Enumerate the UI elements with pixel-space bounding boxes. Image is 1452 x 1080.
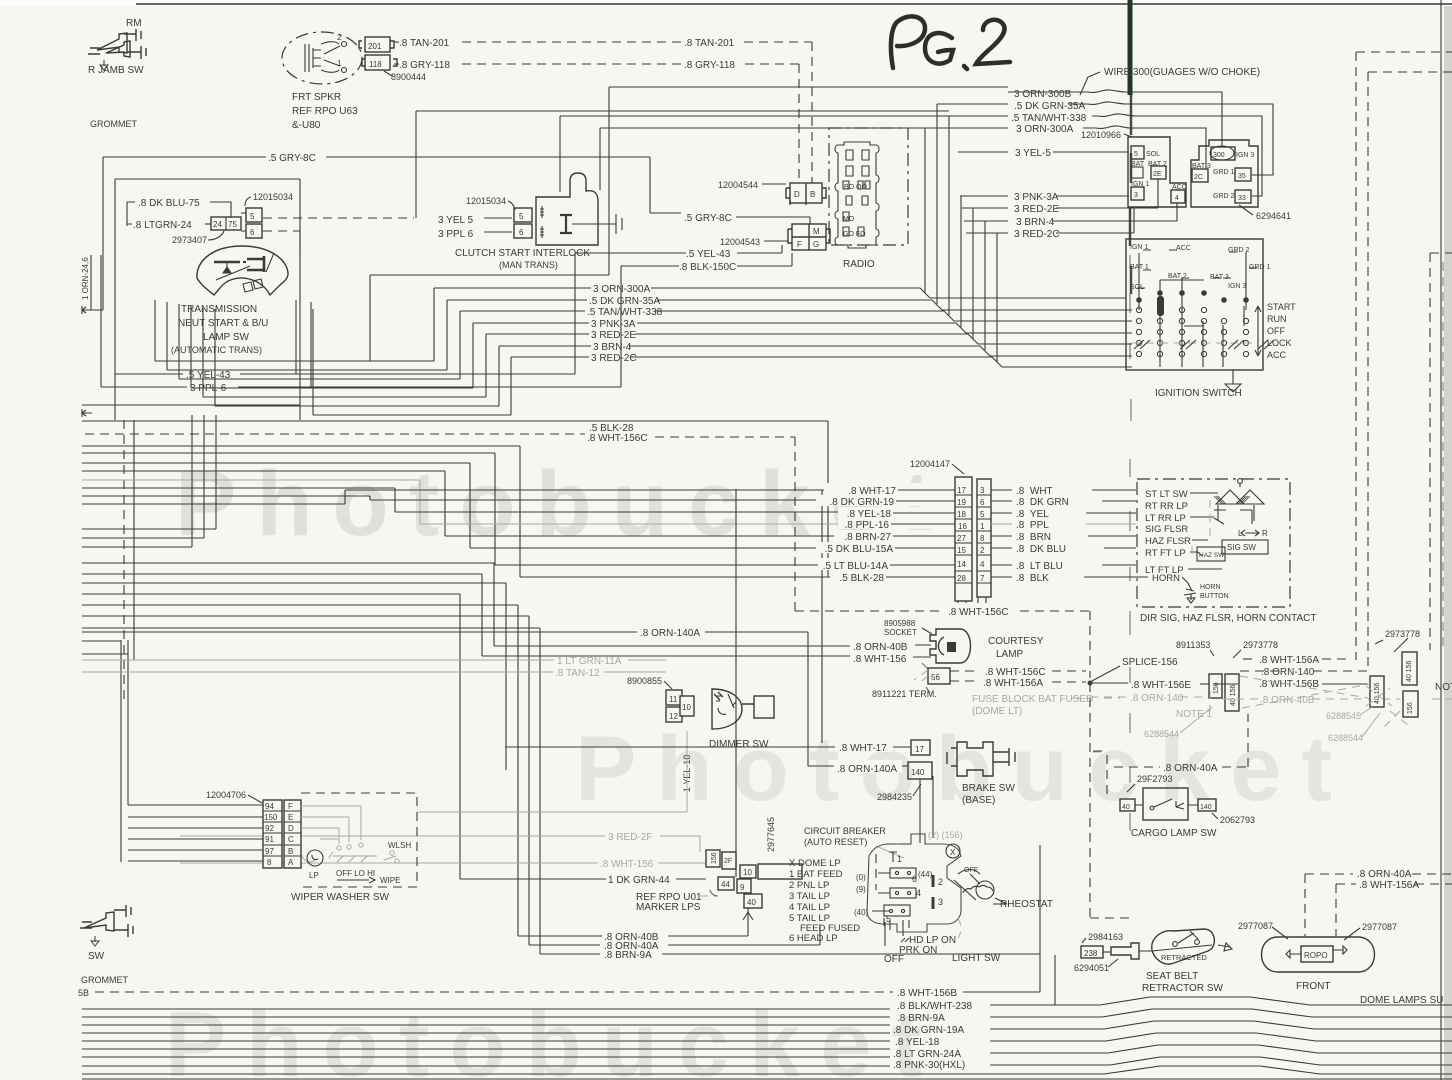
svg-text:2: 2 (938, 877, 943, 887)
svg-text:8: 8 (267, 858, 272, 867)
svg-text:SIG SW: SIG SW (1227, 543, 1256, 552)
right side long dashed verticals (1356, 52, 1452, 660)
retractor body (1152, 929, 1215, 964)
svg-text:140: 140 (911, 768, 925, 777)
svg-text:9: 9 (740, 883, 745, 892)
rows feeding right label fan (560, 116, 949, 192)
FRT SPKR component (282, 32, 362, 84)
svg-text:RADIO: RADIO (843, 259, 875, 270)
svg-text:40 156: 40 156 (1374, 682, 1381, 704)
svg-text:40: 40 (747, 898, 756, 907)
svg-text:.8 WHT-156C: .8 WHT-156C (985, 667, 1046, 678)
svg-text:F: F (288, 802, 293, 811)
svg-text:.8 GRY-118: .8 GRY-118 (684, 60, 735, 71)
lower-left staircase rows (82, 415, 216, 529)
svg-text:F: F (797, 240, 802, 249)
svg-text:.8 ORN-40A: .8 ORN-40A (1357, 869, 1412, 880)
svg-text:ACC: ACC (1176, 245, 1191, 252)
svg-text:NOT: NOT (1435, 682, 1452, 693)
door jamb switch (top) (88, 29, 146, 70)
wire .8 ORN-140A long row (82, 631, 637, 633)
svg-text:.8 BLK/WHT-238: .8 BLK/WHT-238 (897, 1001, 972, 1012)
svg-text:(40): (40) (854, 908, 869, 917)
svg-text:1 DK GRN-44: 1 DK GRN-44 (608, 875, 670, 886)
svg-text:3 RED-2F: 3 RED-2F (608, 832, 652, 843)
svg-text:44: 44 (721, 880, 730, 889)
ignition connector left 12010966 (1128, 137, 1186, 207)
svg-text:.8 BRN-9A: .8 BRN-9A (604, 950, 652, 961)
svg-text:.8 WHT-156: .8 WHT-156 (853, 654, 907, 665)
svg-text:PRK ON: PRK ON (899, 945, 937, 956)
bottom harness bundle left (82, 1009, 890, 1066)
svg-text:156: 156 (711, 852, 718, 864)
svg-text:.8 ORN-140: .8 ORN-140 (1130, 693, 1184, 704)
svg-text:.8 WHT-156A: .8 WHT-156A (1359, 880, 1419, 891)
svg-text:40 156: 40 156 (1406, 660, 1413, 682)
svg-text:8: 8 (980, 534, 985, 543)
156 terminal under lamp (928, 668, 950, 684)
svg-text:8900855: 8900855 (627, 676, 662, 686)
dashed enclosure (301, 793, 417, 887)
8 rows to connector 12004147 (82, 446, 868, 577)
svg-text:(BASE): (BASE) (962, 795, 995, 806)
svg-text:3 BRN-4: 3 BRN-4 (1016, 217, 1055, 228)
svg-text:.5 TAN/WHT-338: .5 TAN/WHT-338 (1011, 113, 1087, 124)
splice dashed vertical down (1090, 683, 1130, 918)
svg-text:12: 12 (669, 712, 678, 721)
svg-text:29F2793: 29F2793 (1137, 774, 1173, 784)
svg-text:3 ORN-300A: 3 ORN-300A (593, 284, 651, 295)
svg-text:12004543: 12004543 (720, 237, 760, 247)
svg-text:.5 GRY-8C: .5 GRY-8C (684, 213, 732, 224)
svg-text:3 PNK-3A: 3 PNK-3A (591, 319, 636, 330)
svg-text:.8 PNK-30(HXL): .8 PNK-30(HXL) (893, 1060, 965, 1071)
lock row dashed with wipers (1132, 342, 1254, 344)
internals (301, 806, 399, 863)
svg-text:.8 GRY-118: .8 GRY-118 (399, 60, 450, 71)
svg-text:238: 238 (1084, 949, 1098, 958)
svg-text:B: B (288, 847, 293, 856)
wire .5 GRY-8C top run (103, 156, 266, 158)
svg-text:OFF: OFF (964, 867, 978, 874)
svg-text:ACC: ACC (1267, 350, 1287, 360)
svg-text:2: 2 (980, 546, 985, 555)
rheostat (954, 870, 994, 901)
svg-text:12004706: 12004706 (206, 790, 246, 800)
svg-text:11: 11 (669, 695, 678, 704)
svg-text:2: 2 (337, 33, 342, 42)
svg-text:(9): (9) (856, 885, 866, 894)
svg-text:GROMMET: GROMMET (90, 119, 137, 129)
svg-text:BRAKE SW: BRAKE SW (962, 783, 1015, 794)
svg-text:2973778: 2973778 (1243, 640, 1278, 650)
svg-text:.5 DK BLU-15A: .5 DK BLU-15A (825, 544, 894, 555)
svg-text:150: 150 (264, 813, 278, 822)
wires at splice right going to far cluster (1243, 658, 1257, 660)
svg-text:4: 4 (980, 560, 985, 569)
svg-text:RUN: RUN (1267, 314, 1287, 324)
svg-text:3 YEL-5: 3 YEL-5 (1015, 148, 1051, 159)
svg-text:M: M (813, 227, 820, 236)
START RUN OFF LOCK ACC (1255, 306, 1261, 356)
svg-text:DOME LAMPS SU: DOME LAMPS SU (1360, 995, 1443, 1006)
cargo lamp switch (1093, 751, 1107, 799)
svg-text:NEUT START & B/U: NEUT START & B/U (178, 318, 268, 329)
svg-text:1 BAT FEED: 1 BAT FEED (789, 869, 843, 880)
svg-text:LP: LP (309, 871, 319, 880)
svg-text:3: 3 (980, 486, 985, 495)
svg-text:.8 DK BLU: .8 DK BLU (1016, 544, 1066, 555)
svg-text:2C: 2C (1194, 174, 1203, 181)
svg-text:LAMP SW: LAMP SW (203, 332, 249, 343)
svg-text:.8 DK GRN: .8 DK GRN (1016, 497, 1069, 508)
svg-text:2 PNL LP: 2 PNL LP (789, 880, 829, 891)
svg-text:FRONT: FRONT (1296, 981, 1330, 992)
brake switch (947, 742, 1015, 776)
svg-text:LIGHT SW: LIGHT SW (952, 953, 1001, 964)
svg-text:.8 BRN-9A: .8 BRN-9A (897, 1013, 945, 1024)
ORN-40B / 40A / BRN-9A labels (600, 935, 602, 937)
svg-text:.8 LT BLU: .8 LT BLU (1016, 561, 1063, 572)
svg-text:.8 ORN-140A: .8 ORN-140A (837, 764, 897, 775)
svg-text:18: 18 (957, 510, 966, 519)
svg-text:WIPER WASHER SW: WIPER WASHER SW (291, 892, 390, 903)
svg-text:6288544: 6288544 (1328, 733, 1363, 743)
svg-text:OFF: OFF (1267, 326, 1285, 336)
svg-text:A: A (288, 858, 294, 867)
svg-text:.8 ORN-140A: .8 ORN-140A (640, 628, 700, 639)
svg-text:DIR SIG, HAZ FLSR, HORN CONTAC: DIR SIG, HAZ FLSR, HORN CONTACT (1140, 613, 1317, 624)
svg-text:1: 1 (897, 854, 902, 864)
svg-text:92: 92 (265, 824, 274, 833)
svg-text:HORN: HORN (1152, 573, 1180, 584)
svg-text:.8 YEL: .8 YEL (1016, 509, 1049, 520)
svg-text:SOL: SOL (1146, 151, 1160, 158)
svg-text:8905988: 8905988 (884, 619, 916, 628)
svg-text:.8 PPL: .8 PPL (1016, 520, 1049, 531)
svg-text:&-U80: &-U80 (292, 120, 321, 131)
handwritten PG. 2 (891, 16, 1010, 69)
svg-text:.8 YEL-18: .8 YEL-18 (895, 1037, 940, 1048)
svg-text:6: 6 (519, 228, 524, 237)
svg-text:3 RED-2E: 3 RED-2E (591, 330, 636, 341)
svg-text:RETRACTED: RETRACTED (1161, 953, 1207, 962)
svg-text:GRD 2: GRD 2 (1213, 193, 1235, 200)
svg-text:2E: 2E (1153, 171, 1162, 178)
svg-text:12004544: 12004544 (718, 180, 758, 190)
svg-text:.8 WHT-156C: .8 WHT-156C (587, 433, 648, 444)
svg-text:2F: 2F (724, 858, 732, 865)
svg-text:.8 WHT-156B: .8 WHT-156B (897, 988, 957, 999)
svg-text:IGN 3: IGN 3 (1228, 283, 1246, 290)
svg-text:D: D (794, 190, 800, 199)
svg-text:201: 201 (368, 42, 382, 51)
svg-text:OFF: OFF (884, 954, 904, 965)
7 wires left of labels with Z-steps (651, 288, 1126, 298)
ignition switch contact dots (1136, 307, 1248, 356)
svg-text:(2) (156): (2) (156) (928, 830, 963, 840)
speaker connector 201/118 (359, 37, 397, 70)
svg-text:GRD 1: GRD 1 (1213, 169, 1235, 176)
left edge arrow terminals (82, 306, 103, 314)
svg-text:.8 LT GRN-24A: .8 LT GRN-24A (893, 1049, 961, 1060)
svg-text:WIPE: WIPE (380, 876, 400, 885)
svg-text:6294641: 6294641 (1256, 211, 1291, 221)
horn button (1184, 583, 1196, 595)
svg-text:E: E (288, 813, 293, 822)
svg-text:IGN 3: IGN 3 (1236, 152, 1254, 159)
svg-text:3: 3 (1134, 192, 1138, 199)
svg-text:D: D (288, 824, 294, 833)
svg-text:LT RR LP: LT RR LP (1145, 513, 1186, 524)
svg-text:5: 5 (980, 510, 985, 519)
svg-text:FRT SPKR: FRT SPKR (292, 92, 341, 103)
svg-text:SIG FLSR: SIG FLSR (1145, 524, 1188, 535)
svg-text:27: 27 (957, 534, 966, 543)
svg-text:7: 7 (980, 574, 985, 583)
svg-text:WLSH: WLSH (388, 841, 411, 850)
clutch switch body (536, 173, 598, 245)
svg-text:4: 4 (916, 888, 921, 898)
svg-text:.8 YEL-18: .8 YEL-18 (847, 509, 892, 520)
svg-text:.8 TAN-12: .8 TAN-12 (555, 668, 600, 679)
far right connector cluster (1370, 652, 1418, 717)
wire 3 PNK-3A (960, 195, 1008, 197)
svg-text:5: 5 (886, 914, 891, 924)
svg-text:3 RED-2C: 3 RED-2C (591, 353, 637, 364)
orn-140A connector (808, 765, 836, 767)
svg-text:156: 156 (1407, 702, 1414, 714)
page top border (136, 3, 1452, 5)
svg-text:17: 17 (957, 486, 966, 495)
svg-text:.8 BRN: .8 BRN (1016, 532, 1051, 543)
branch verticals up to right stack (925, 104, 997, 362)
svg-text:14: 14 (957, 560, 966, 569)
svg-text:GROMMET: GROMMET (81, 975, 128, 985)
svg-text:BAT 2: BAT 2 (1168, 273, 1187, 280)
svg-text:REF RPO U63: REF RPO U63 (292, 106, 358, 117)
svg-text:33: 33 (1238, 195, 1246, 202)
position labels (885, 920, 909, 946)
1 DK GRN-44 (460, 878, 606, 880)
svg-text:2977645: 2977645 (766, 817, 776, 852)
svg-text:1 LT GRN-11A: 1 LT GRN-11A (557, 656, 622, 667)
svg-text:.5 LT BLU-14A: .5 LT BLU-14A (823, 561, 889, 572)
dimmer symbol (712, 689, 774, 729)
svg-text:6: 6 (980, 498, 985, 507)
svg-text:17: 17 (915, 745, 924, 754)
svg-text:IGNITION SWITCH: IGNITION SWITCH (1155, 388, 1242, 399)
svg-text:12015034: 12015034 (253, 192, 293, 202)
svg-text:6 HEAD LP: 6 HEAD LP (789, 933, 838, 944)
big loop around clutch area (370, 87, 609, 361)
svg-text:.8 WHT-156: .8 WHT-156 (600, 859, 654, 870)
svg-text:.5 GRY-8C: .5 GRY-8C (268, 153, 316, 164)
svg-text:19: 19 (957, 498, 966, 507)
ignition connector right (1191, 140, 1258, 207)
svg-text:HAZ FLSR: HAZ FLSR (1145, 536, 1191, 547)
svg-text:35: 35 (1238, 173, 1246, 180)
svg-text:(AUTOMATIC TRANS): (AUTOMATIC TRANS) (171, 345, 262, 355)
svg-text:LOCK: LOCK (1267, 338, 1292, 348)
svg-text:40: 40 (1122, 804, 1130, 811)
ground symbol below box (1225, 370, 1241, 392)
fan wires to ignition connector (1008, 90, 1222, 146)
svg-text:C: C (288, 835, 294, 844)
svg-text:GO FO: GO FO (843, 231, 866, 238)
svg-text:3 RED-2C: 3 RED-2C (1014, 229, 1060, 240)
svg-text:3: 3 (938, 897, 943, 907)
svg-text:94: 94 (265, 802, 274, 811)
wht-17 connector (lower) (505, 746, 835, 748)
svg-text:2984235: 2984235 (877, 792, 912, 802)
bottom bundle right with jog (990, 997, 1452, 1005)
svg-text:SPLICE-156: SPLICE-156 (1122, 657, 1178, 668)
svg-text:MO: MO (843, 216, 855, 223)
svg-text:X: X (950, 848, 956, 857)
svg-text:16: 16 (958, 522, 967, 531)
svg-text:2062793: 2062793 (1220, 815, 1255, 825)
svg-text:4: 4 (1175, 195, 1179, 202)
wire 3 YEL-5 (958, 151, 1008, 153)
wire 3 PPL-6 (101, 386, 187, 388)
faded ORN-140 row (1090, 696, 1128, 698)
svg-text:3 TAIL LP: 3 TAIL LP (789, 891, 830, 902)
svg-text:6294051: 6294051 (1074, 963, 1109, 973)
rows into connector (128, 805, 263, 861)
faded wires LT GRN-11A / TAN-12 (82, 659, 554, 661)
svg-text:LAMP: LAMP (996, 649, 1024, 660)
svg-text:ROPO: ROPO (1304, 951, 1328, 960)
svg-text:3 ORN-300A: 3 ORN-300A (1016, 124, 1074, 135)
svg-text:.5 TAN/WHT-338: .5 TAN/WHT-338 (587, 307, 663, 318)
staircase verticals dropping to bottom area (736, 489, 1040, 930)
svg-text:5: 5 (1134, 151, 1138, 158)
svg-text:3 BRN-4: 3 BRN-4 (593, 342, 632, 353)
svg-text:G: G (813, 240, 819, 249)
svg-text:140: 140 (1200, 804, 1212, 811)
svg-text:.8 ORN-40B: .8 ORN-40B (853, 642, 908, 653)
svg-text:.5 DK GRN-35A: .5 DK GRN-35A (589, 296, 660, 307)
svg-text:3 PPL 6: 3 PPL 6 (438, 229, 474, 240)
wire .8 DK BLU-75 (127, 202, 135, 226)
svg-text:.8 DK GRN-19A: .8 DK GRN-19A (893, 1025, 964, 1036)
svg-text:FUSE BLOCK BAT FUSED: FUSE BLOCK BAT FUSED (972, 694, 1093, 705)
svg-text:10: 10 (743, 868, 752, 877)
ignition switch box (1126, 239, 1263, 370)
fold mark dark streak top center (1128, 0, 1133, 95)
svg-text:.5 BLK-28: .5 BLK-28 (840, 573, 885, 584)
svg-text:TRANSMISSION: TRANSMISSION (181, 304, 257, 315)
svg-text:.8 BLK-150C: .8 BLK-150C (679, 262, 736, 273)
svg-text:BUTTON: BUTTON (1200, 593, 1229, 600)
svg-text:6: 6 (250, 228, 255, 237)
svg-text:(AUTO RESET): (AUTO RESET) (804, 837, 867, 847)
svg-text:COURTESY: COURTESY (988, 636, 1044, 647)
svg-text:HORN: HORN (1200, 584, 1221, 591)
svg-text:12015034: 12015034 (466, 196, 506, 206)
svg-text:(MAN TRANS): (MAN TRANS) (499, 260, 558, 270)
page right edge line (1440, 0, 1442, 1080)
svg-text:RT RR LP: RT RR LP (1145, 501, 1188, 512)
svg-text:SOCKET: SOCKET (884, 628, 917, 637)
svg-text:.8 BLK: .8 BLK (1016, 573, 1049, 584)
svg-text:3 YEL 5: 3 YEL 5 (438, 215, 473, 226)
svg-text:(DOME LT): (DOME LT) (972, 706, 1022, 717)
svg-text:56: 56 (931, 673, 940, 682)
left dashed vertical harness (123, 420, 125, 700)
signal switch mechanism (1214, 479, 1264, 524)
svg-text:.8 ORN-140: .8 ORN-140 (1261, 667, 1315, 678)
svg-text:.8 ORN-40A: .8 ORN-40A (1163, 763, 1218, 774)
svg-text:28: 28 (957, 574, 966, 583)
inner contacts (872, 868, 933, 930)
svg-text:.8 WHT-17: .8 WHT-17 (848, 486, 896, 497)
left connector labels (white-backed) (824, 483, 940, 495)
svg-text:.8 TAN-201: .8 TAN-201 (684, 38, 735, 49)
svg-text:CIRCUIT BREAKER: CIRCUIT BREAKER (804, 826, 886, 836)
svg-text:.8 WHT-156C: .8 WHT-156C (948, 607, 1009, 618)
svg-text:1 ORN-24,6: 1 ORN-24,6 (81, 257, 90, 300)
svg-text:RETRACTOR SW: RETRACTOR SW (1142, 983, 1223, 994)
wire .8 WHT-156C dashed label row (945, 603, 1015, 615)
DIR SIG / HAZ FLSR box (1137, 479, 1290, 607)
svg-text:CLUTCH START INTERLOCK: CLUTCH START INTERLOCK (455, 248, 590, 259)
door jamb switch (bottom) (80, 905, 133, 946)
svg-text:5B: 5B (78, 988, 89, 998)
svg-text:WIRE 300(GUAGES W/O CHOKE): WIRE 300(GUAGES W/O CHOKE) (1104, 67, 1260, 78)
svg-text:2973407: 2973407 (172, 235, 207, 245)
transmission neut start switch body (197, 246, 288, 295)
svg-text:R JAMB SW: R JAMB SW (88, 65, 144, 76)
connector 5/6 (trans) (246, 208, 262, 222)
svg-text:RT FT LP: RT FT LP (1145, 548, 1186, 559)
svg-text:91: 91 (265, 835, 274, 844)
svg-text:.8 PPL-16: .8 PPL-16 (845, 520, 890, 531)
svg-text:4 TAIL LP: 4 TAIL LP (789, 902, 830, 913)
svg-text:5: 5 (519, 212, 524, 221)
svg-text:2977087: 2977087 (1238, 921, 1273, 931)
svg-text:3 RED-2E: 3 RED-2E (1014, 204, 1059, 215)
svg-text:12004147: 12004147 (910, 459, 950, 469)
svg-text:3 PNK-3A: 3 PNK-3A (1014, 192, 1059, 203)
svg-text:RM: RM (126, 18, 142, 29)
left harness verticals top (103, 157, 300, 420)
svg-text:118: 118 (369, 60, 382, 69)
svg-text:(0): (0) (856, 873, 866, 882)
svg-text:R: R (1262, 529, 1268, 538)
dotted X interconnects (1240, 676, 1392, 708)
svg-text:97: 97 (265, 847, 274, 856)
svg-text:15: 15 (957, 546, 966, 555)
svg-text:.8 WHT-17: .8 WHT-17 (839, 743, 887, 754)
radio inner connector outline (835, 142, 879, 248)
svg-text:.8 ORN-40B: .8 ORN-40B (1260, 695, 1315, 706)
svg-text:1: 1 (980, 522, 985, 531)
svg-text:300: 300 (1213, 152, 1225, 159)
svg-text:10: 10 (682, 703, 691, 712)
svg-text:BO OO: BO OO (844, 184, 868, 191)
svg-text:.8 DK BLU-75: .8 DK BLU-75 (138, 198, 200, 209)
switch outline (867, 834, 961, 932)
wire 3 RED-2E (962, 207, 1008, 209)
wire .5 YEL-43 (115, 373, 183, 375)
svg-text:.8 DK GRN-19: .8 DK GRN-19 (830, 497, 895, 508)
faded ORN-40B row (1222, 698, 1258, 700)
svg-text:2973778: 2973778 (1385, 629, 1420, 639)
svg-text:24: 24 (213, 220, 222, 229)
marker lamp area (faded) (180, 835, 700, 837)
